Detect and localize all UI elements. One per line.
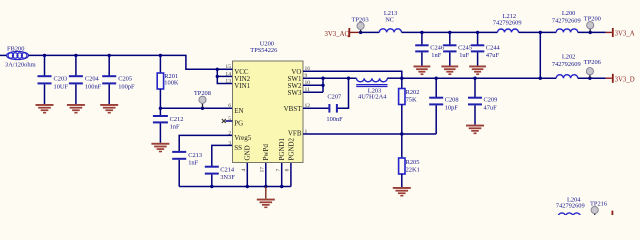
wire PGND2 pin xyxy=(290,163,292,187)
capacitor C207 xyxy=(303,78,349,123)
svg-text:C245: C245 xyxy=(458,45,472,52)
node VOUT xyxy=(400,77,403,80)
wire lower rail to L202 xyxy=(540,77,556,79)
svg-text:1uF: 1uF xyxy=(459,52,469,59)
pin 4 GND xyxy=(241,145,252,171)
svg-text:14: 14 xyxy=(225,71,231,77)
svg-text:TP208: TP208 xyxy=(194,90,211,97)
svg-text:742792609: 742792609 xyxy=(552,17,581,24)
svg-text:PG: PG xyxy=(234,120,243,128)
node bus-PwPd xyxy=(264,185,267,188)
svg-text:22K1: 22K1 xyxy=(406,166,420,173)
svg-text:742792609: 742792609 xyxy=(493,19,522,26)
svg-text:100K: 100K xyxy=(164,79,179,86)
capacitor C209 xyxy=(468,78,497,124)
wire Vreg5 net xyxy=(179,135,232,151)
svg-text:PGND2: PGND2 xyxy=(287,137,295,160)
capacitor C245 xyxy=(443,32,472,65)
pin 11 SW3 xyxy=(288,87,311,97)
pin 8 PGND2 xyxy=(285,137,296,171)
test point TP206 xyxy=(584,59,601,78)
svg-text:47uF: 47uF xyxy=(484,104,498,111)
resistor R201 xyxy=(157,55,179,108)
test point TP200 xyxy=(584,15,601,32)
svg-text:3A/120ohm: 3A/120ohm xyxy=(5,61,36,68)
node pinbus-14 xyxy=(216,75,219,78)
pin 10 SW2 xyxy=(288,80,311,90)
pin 2 Vreg5 xyxy=(228,130,252,142)
svg-text:5: 5 xyxy=(228,116,231,122)
ferrite bead FB200 xyxy=(7,51,29,59)
pin 13 VIN1 xyxy=(225,78,250,90)
svg-text:1nF: 1nF xyxy=(170,124,180,131)
svg-text:10UF: 10UF xyxy=(54,84,69,91)
svg-text:75K: 75K xyxy=(406,96,417,103)
svg-text:3V3_AQ: 3V3_AQ xyxy=(325,31,350,38)
svg-text:Vreg5: Vreg5 xyxy=(234,134,252,142)
ground R205 xyxy=(393,187,411,197)
svg-text:VBST: VBST xyxy=(284,105,303,113)
svg-text:742792609: 742792609 xyxy=(552,61,581,68)
node bus-C214 xyxy=(210,185,213,188)
test point TP216 xyxy=(590,200,607,216)
inductor L213 xyxy=(379,10,401,32)
svg-text:3: 3 xyxy=(228,140,231,146)
svg-text:TP206: TP206 xyxy=(584,59,601,66)
svg-text:TPS54226: TPS54226 xyxy=(250,47,277,54)
node VFB-R202 xyxy=(400,132,403,135)
svg-text:4: 4 xyxy=(241,169,247,172)
svg-text:3V3_D: 3V3_D xyxy=(615,76,635,83)
power port 3V3_A xyxy=(606,28,635,38)
node C207-SW xyxy=(347,77,350,80)
svg-text:C205: C205 xyxy=(118,75,132,82)
ground C212 xyxy=(151,143,169,153)
node rail-C204 xyxy=(74,54,77,57)
wire top rail mid xyxy=(402,31,498,33)
svg-text:R202: R202 xyxy=(406,89,420,96)
capacitor C214 xyxy=(205,167,235,187)
svg-text:13: 13 xyxy=(225,78,231,84)
wire to 3V3_A xyxy=(578,31,606,33)
wire input rail xyxy=(29,55,233,69)
svg-text:100nF: 100nF xyxy=(326,116,343,123)
node EN-R201-C212 xyxy=(159,107,162,110)
svg-text:742792609: 742792609 xyxy=(556,202,585,209)
capacitor C208 xyxy=(429,78,458,134)
svg-text:100nF: 100nF xyxy=(85,84,102,91)
svg-text:VFB: VFB xyxy=(288,130,302,138)
svg-text:TP216: TP216 xyxy=(590,200,607,207)
svg-text:C204: C204 xyxy=(85,75,100,82)
svg-text:PwPd: PwPd xyxy=(262,144,270,161)
node rail-C208 xyxy=(435,77,438,80)
pin 7 PGND1 xyxy=(276,137,287,171)
node bus-PGND1 xyxy=(280,185,283,188)
node bus-GND xyxy=(246,185,249,188)
pin 3 SS xyxy=(228,140,242,152)
svg-text:C213: C213 xyxy=(188,152,202,159)
node rail-C244 xyxy=(476,31,479,34)
pin 6 EN xyxy=(228,103,243,115)
ground C246 xyxy=(414,66,431,76)
wire pin bus VIN xyxy=(217,69,232,83)
capacitor C203 xyxy=(38,55,69,104)
node SW1-bus xyxy=(321,77,324,80)
node rail-R201 xyxy=(159,54,162,57)
node pinbus-15 xyxy=(216,68,219,71)
svg-text:L202: L202 xyxy=(562,54,576,61)
svg-text:SS: SS xyxy=(234,144,242,152)
wire SW3 xyxy=(303,91,323,93)
pin 1 VFB xyxy=(288,129,308,138)
svg-text:C212: C212 xyxy=(170,116,184,123)
ground C204 xyxy=(67,104,85,114)
node rail-C203 xyxy=(43,54,46,57)
svg-text:2: 2 xyxy=(228,130,231,136)
svg-text:1nF: 1nF xyxy=(188,160,198,167)
node rail-C209 xyxy=(473,77,476,80)
svg-text:SW3: SW3 xyxy=(288,89,303,97)
power port 3V3_AQ xyxy=(325,28,361,38)
svg-text:C209: C209 xyxy=(484,97,498,104)
svg-text:3N3F: 3N3F xyxy=(220,174,235,181)
inductor L212 xyxy=(493,13,522,32)
wire VO net xyxy=(303,71,402,78)
wire SW bus xyxy=(322,78,324,92)
node rail-C245 xyxy=(448,31,451,34)
wire GND pin xyxy=(246,163,248,187)
svg-text:10pF: 10pF xyxy=(445,104,459,111)
wire riser xyxy=(539,32,541,78)
capacitor C212 xyxy=(153,108,184,143)
svg-text:GND: GND xyxy=(244,145,252,160)
svg-text:17: 17 xyxy=(260,167,266,173)
wire VIN2 xyxy=(217,75,232,77)
node rail-C246 xyxy=(420,31,423,34)
wire ground bus xyxy=(179,186,291,188)
svg-text:PGND1: PGND1 xyxy=(278,137,286,160)
svg-text:3V3_A: 3V3_A xyxy=(615,31,635,38)
node rail-C205 xyxy=(108,54,111,57)
pin 17 PwPd xyxy=(260,144,271,173)
power port 3V3_D xyxy=(606,74,635,84)
svg-text:C207: C207 xyxy=(327,93,342,100)
test point TP203 xyxy=(352,16,369,32)
ground power bus xyxy=(257,187,275,209)
pin 5 PG xyxy=(222,116,243,128)
op-amp U200 TPS54226 xyxy=(233,40,304,162)
svg-text:TP203: TP203 xyxy=(352,16,369,23)
svg-text:TP200: TP200 xyxy=(584,15,601,22)
wire SW2 xyxy=(303,84,323,86)
inductor L202 xyxy=(552,54,581,78)
node rail-riser xyxy=(539,77,542,80)
pin 15 VCC xyxy=(225,64,249,76)
pin 16 VO xyxy=(291,66,310,76)
wire 3V3_AQ rail xyxy=(361,31,380,33)
wire input left edge xyxy=(0,54,7,56)
ground C209 xyxy=(466,125,484,135)
ground C245 xyxy=(441,66,458,76)
resistor R202 xyxy=(399,78,420,134)
pin 14 VIN2 xyxy=(225,71,250,83)
ground C203 xyxy=(36,104,54,114)
wire SS net xyxy=(212,145,233,166)
svg-text:C244: C244 xyxy=(486,45,501,52)
wire EN net xyxy=(160,107,232,109)
inductor L203 xyxy=(356,78,387,100)
capacitor C246 xyxy=(415,32,444,65)
wire PwPd pin xyxy=(265,163,267,187)
capacitor C205 xyxy=(102,55,135,104)
wire PGND1 pin xyxy=(281,163,283,187)
resistor R205 xyxy=(399,134,420,187)
capacitor C244 xyxy=(471,32,501,65)
test point TP208 xyxy=(194,90,211,108)
inductor L200 xyxy=(552,10,581,32)
svg-text:15: 15 xyxy=(225,64,231,70)
wire VFB net xyxy=(303,133,436,135)
svg-text:8: 8 xyxy=(285,169,291,172)
svg-text:4U7H/2A4: 4U7H/2A4 xyxy=(358,94,387,101)
power port partial bottom xyxy=(612,211,614,215)
ground C244 xyxy=(469,66,486,76)
ground C205 xyxy=(100,104,118,114)
node EN-TP208 xyxy=(201,107,204,110)
svg-text:47uF: 47uF xyxy=(486,52,500,59)
svg-text:6: 6 xyxy=(228,103,231,109)
node TP206 xyxy=(588,77,591,80)
wire top rail right xyxy=(519,31,557,33)
inductor L204 xyxy=(556,196,585,216)
node TP200 xyxy=(589,31,592,34)
node TP203 xyxy=(359,31,362,34)
wire to 3V3_D xyxy=(578,77,606,79)
svg-text:C214: C214 xyxy=(220,167,235,174)
svg-text:EN: EN xyxy=(234,107,243,115)
svg-text:C203: C203 xyxy=(54,75,68,82)
capacitor C204 xyxy=(69,55,102,104)
node riser-top xyxy=(539,31,542,34)
svg-text:R205: R205 xyxy=(406,159,420,166)
wire L203 to node xyxy=(387,77,402,79)
capacitor C213 xyxy=(172,152,202,187)
svg-text:NC: NC xyxy=(385,16,394,23)
svg-text:C208: C208 xyxy=(445,97,459,104)
pin 9 SW1 xyxy=(288,73,308,83)
wire output rail xyxy=(402,77,541,79)
node SW2-bus xyxy=(321,84,324,87)
pin 12 VBST xyxy=(284,103,311,113)
svg-text:FB200: FB200 xyxy=(7,46,24,53)
svg-text:VIN1: VIN1 xyxy=(234,82,250,90)
svg-text:100pF: 100pF xyxy=(118,84,135,91)
wire SW1 to inductor xyxy=(303,77,357,79)
svg-text:C246: C246 xyxy=(430,45,444,52)
svg-text:1nF: 1nF xyxy=(431,52,441,59)
svg-text:7: 7 xyxy=(276,169,282,172)
svg-text:L200: L200 xyxy=(562,10,576,17)
